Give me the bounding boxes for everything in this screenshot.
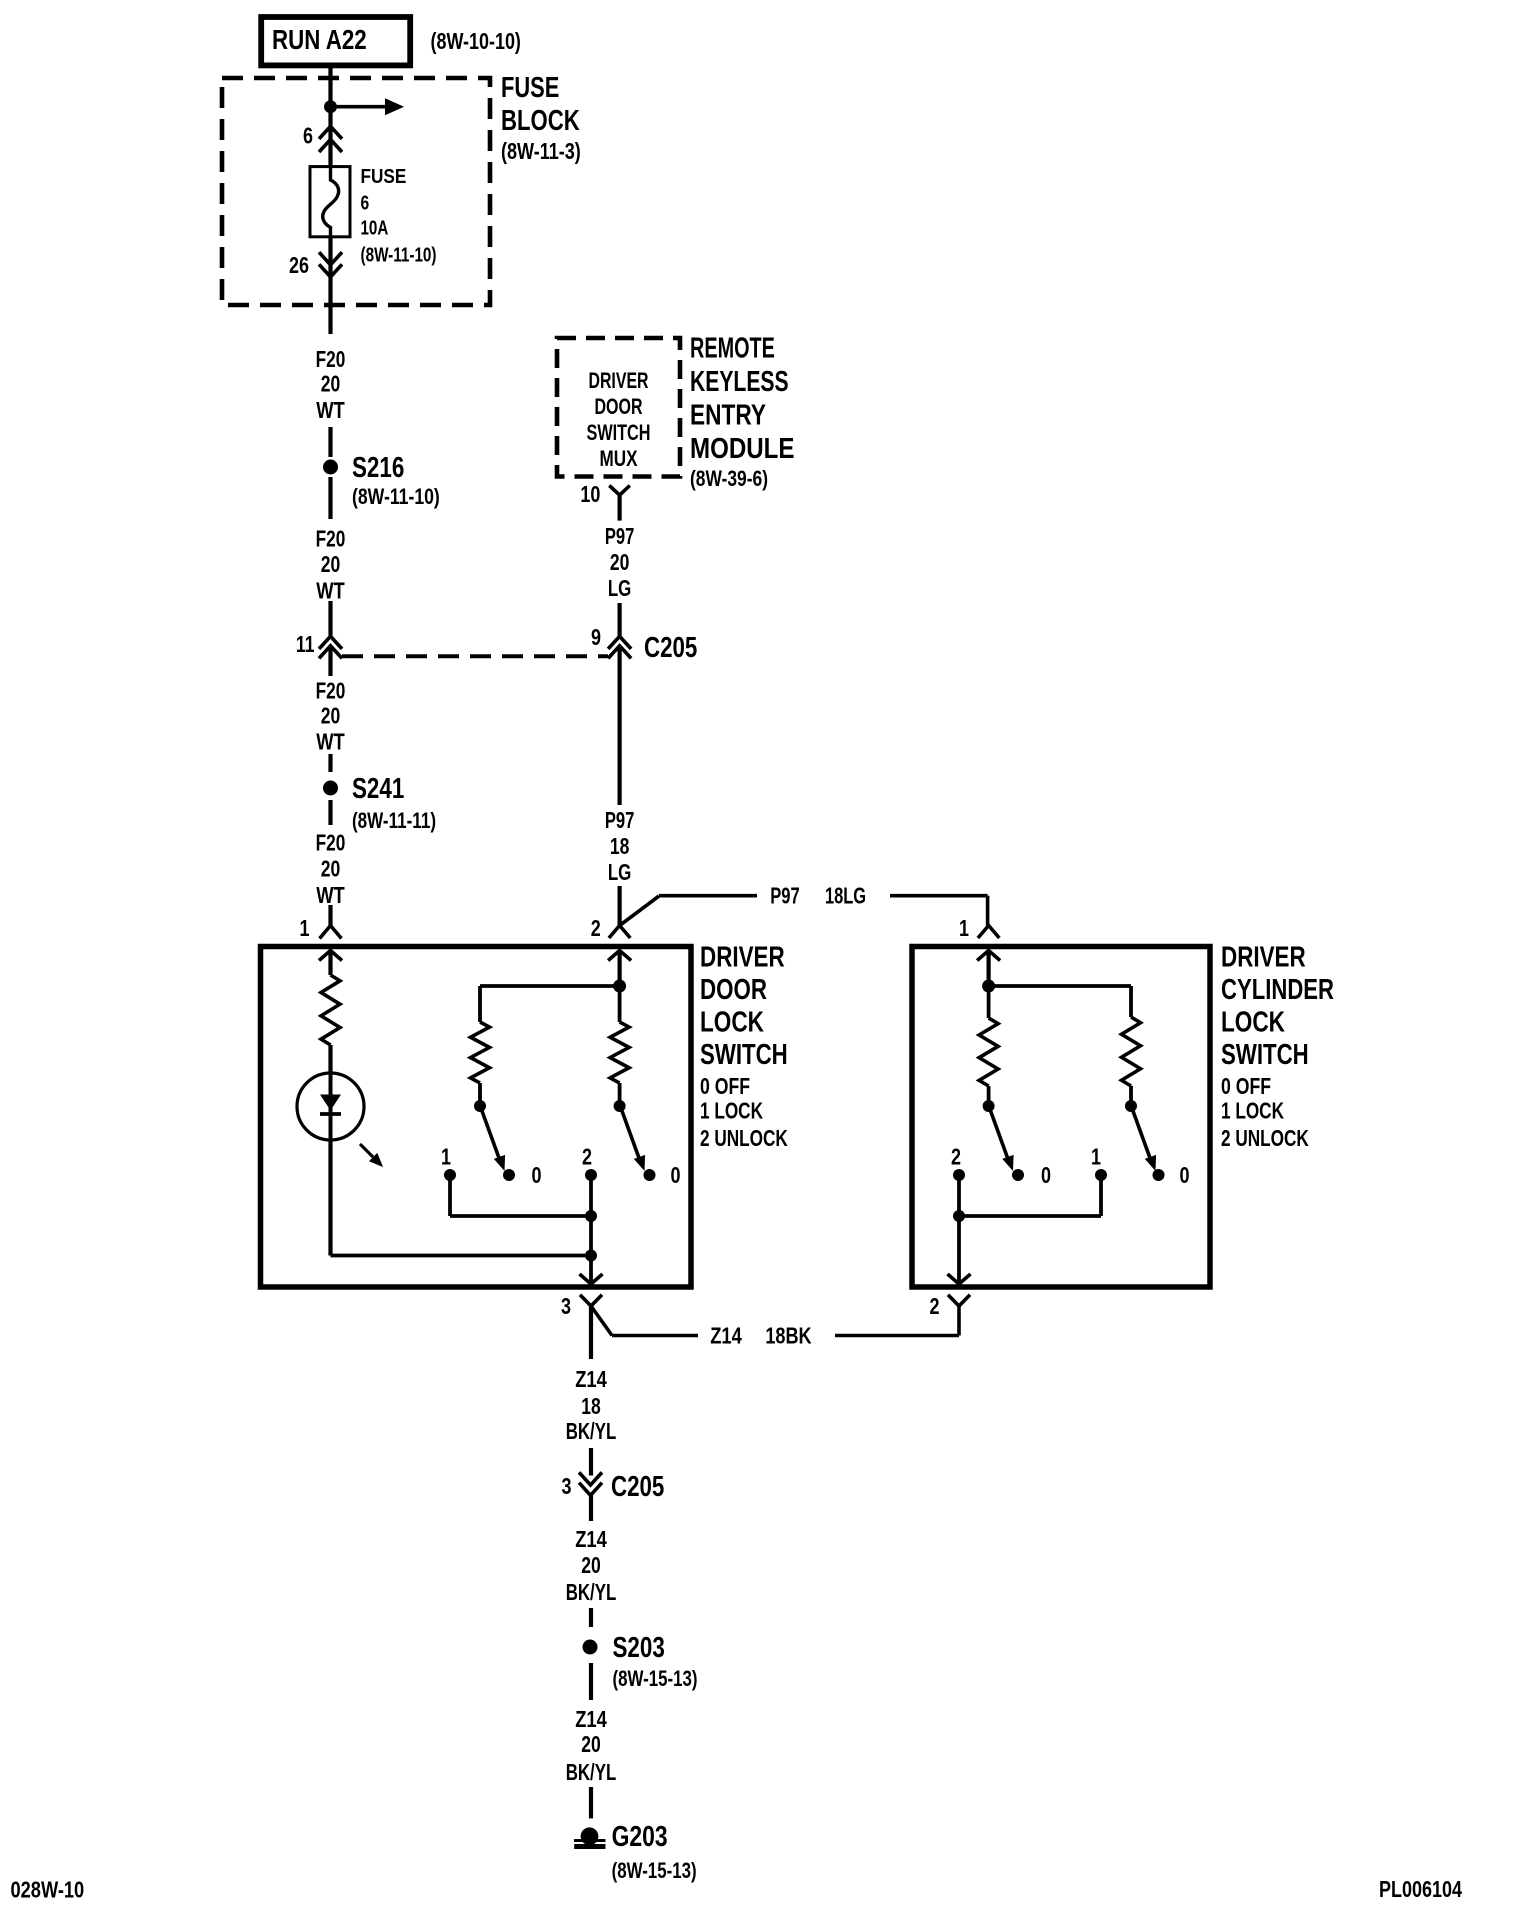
junction dot pin1 branch (cylinder) bbox=[982, 980, 995, 993]
wire contact1 down bbox=[448, 1175, 452, 1216]
resistor LED branch bbox=[321, 975, 340, 1045]
svg-text:P97: P97 bbox=[605, 523, 635, 549]
switch arm (lock) bbox=[482, 1111, 505, 1171]
svg-text:2 UNLOCK: 2 UNLOCK bbox=[700, 1125, 788, 1151]
splice S203 bbox=[583, 1640, 598, 1655]
switch arm (lock cyl) bbox=[991, 1111, 1014, 1171]
svg-text:SWITCH: SWITCH bbox=[587, 420, 651, 445]
contact 0 dot (lock cyl) bbox=[1012, 1169, 1024, 1181]
junction dot pin2 branch bbox=[613, 980, 626, 993]
svg-text:2: 2 bbox=[582, 1144, 592, 1170]
svg-text:LOCK: LOCK bbox=[700, 1007, 764, 1039]
wire segment bbox=[589, 1448, 593, 1476]
svg-text:WT: WT bbox=[316, 882, 345, 908]
svg-text:2: 2 bbox=[930, 1293, 940, 1319]
svg-text:26: 26 bbox=[289, 252, 309, 278]
wire branch horizontal bbox=[480, 984, 620, 988]
connector C205 pin 11 (double chevron) bbox=[319, 636, 342, 658]
svg-text:2 UNLOCK: 2 UNLOCK bbox=[1221, 1125, 1309, 1151]
label Z14 18BK bbox=[710, 1323, 812, 1349]
wire label P97 20 LG bbox=[605, 523, 635, 601]
wire segment bbox=[328, 477, 332, 519]
LED circle bbox=[297, 1073, 364, 1140]
svg-text:C205: C205 bbox=[611, 1471, 664, 1503]
junction dot LED join bbox=[585, 1250, 597, 1262]
wire pin2 stem to corner bbox=[957, 1306, 961, 1336]
svg-text:F20: F20 bbox=[316, 678, 346, 704]
wire branch down (unlock resistor) bbox=[618, 986, 622, 1022]
driver cylinder lock switch box bbox=[912, 947, 1210, 1288]
wire branch down (lock res cyl) bbox=[987, 986, 991, 1018]
wire to pivot (lock) bbox=[478, 1083, 482, 1101]
svg-text:ENTRY: ENTRY bbox=[690, 400, 766, 432]
svg-text:20: 20 bbox=[610, 549, 630, 575]
svg-text:BLOCK: BLOCK bbox=[501, 105, 580, 137]
svg-text:BK/YL: BK/YL bbox=[566, 1759, 617, 1785]
svg-text:C205: C205 bbox=[644, 632, 697, 664]
svg-text:0: 0 bbox=[532, 1162, 542, 1188]
svg-text:2: 2 bbox=[591, 915, 601, 941]
svg-text:KEYLESS: KEYLESS bbox=[690, 366, 789, 398]
wire contact2 down to pin3 bbox=[589, 1175, 593, 1284]
wire label F20 20 WT (1) bbox=[316, 346, 346, 423]
fuse F6 element bbox=[323, 167, 339, 237]
contact 1 dot (cylinder) bbox=[1095, 1169, 1107, 1181]
svg-text:20: 20 bbox=[321, 856, 341, 882]
svg-text:20: 20 bbox=[321, 371, 341, 397]
wire junction to fuse bbox=[328, 107, 332, 167]
svg-text:S241: S241 bbox=[352, 773, 404, 805]
svg-text:Z14: Z14 bbox=[575, 1366, 607, 1392]
svg-text:20: 20 bbox=[321, 703, 341, 729]
wire through LED bbox=[329, 1073, 333, 1140]
resistor unlock branch (cylinder) bbox=[1122, 1017, 1141, 1086]
contact 2 dot bbox=[585, 1169, 597, 1181]
svg-text:DRIVER: DRIVER bbox=[1221, 942, 1306, 974]
label S216 (8W-11-10) bbox=[352, 452, 440, 509]
connector pin 3 male half (v down) bbox=[580, 1274, 603, 1284]
wire pin1 to resistor bbox=[328, 951, 332, 976]
svg-text:(8W-11-3): (8W-11-3) bbox=[501, 138, 581, 164]
svg-text:Z14: Z14 bbox=[710, 1323, 742, 1349]
svg-text:WT: WT bbox=[316, 729, 345, 755]
wire Z14 18BK horizontal left bbox=[612, 1334, 698, 1338]
connector pin 3 female half bbox=[580, 1295, 602, 1306]
wire segment bbox=[328, 754, 332, 772]
fuse block boundary (dashed) bbox=[222, 78, 490, 305]
svg-text:(8W-15-13): (8W-15-13) bbox=[613, 1666, 698, 1691]
svg-text:1 LOCK: 1 LOCK bbox=[700, 1098, 763, 1124]
svg-text:(8W-10-10): (8W-10-10) bbox=[431, 28, 521, 54]
svg-text:(8W-11-11): (8W-11-11) bbox=[352, 808, 436, 833]
connector pin 2 male half bbox=[608, 951, 631, 961]
wire segment bbox=[328, 800, 332, 825]
svg-text:028W-10: 028W-10 bbox=[11, 1877, 85, 1903]
wire contact2 down (cylinder) bbox=[957, 1175, 961, 1284]
connector pin 2 male half (v down, cylinder) bbox=[948, 1274, 971, 1284]
svg-text:3: 3 bbox=[561, 1293, 571, 1319]
node RUN A22 (feed box) bbox=[261, 17, 410, 65]
wire pin 10 stem bbox=[617, 495, 621, 520]
switch pivot dot (lock cyl) bbox=[983, 1100, 995, 1112]
svg-text:6: 6 bbox=[303, 122, 313, 148]
wire pin3 stem bbox=[589, 1306, 593, 1359]
svg-text:CYLINDER: CYLINDER bbox=[1221, 974, 1334, 1006]
wire LED branch horizontal bbox=[331, 1254, 592, 1258]
svg-text:9: 9 bbox=[591, 624, 601, 650]
svg-text:1: 1 bbox=[300, 915, 310, 941]
connector pin 6 (double chevron) bbox=[319, 126, 342, 152]
svg-text:(8W-11-10): (8W-11-10) bbox=[361, 245, 437, 267]
svg-text:REMOTE: REMOTE bbox=[690, 333, 775, 365]
wire segment bbox=[589, 1663, 593, 1700]
svg-text:BK/YL: BK/YL bbox=[566, 1418, 617, 1444]
junction dot common (cylinder) bbox=[953, 1210, 965, 1222]
wire label F20 20 WT (4) bbox=[316, 830, 346, 909]
svg-text:1: 1 bbox=[959, 915, 969, 941]
wire Z14 18BK horizontal right bbox=[835, 1334, 959, 1338]
svg-text:LG: LG bbox=[608, 859, 632, 885]
wire segment bbox=[617, 603, 621, 636]
wire segment bbox=[617, 647, 621, 805]
driver door switch mux box (dashed) bbox=[557, 338, 680, 477]
wire branch down (lock resistor) bbox=[478, 986, 482, 1022]
svg-text:DOOR: DOOR bbox=[595, 394, 643, 419]
svg-text:1: 1 bbox=[441, 1144, 451, 1170]
wire label F20 20 WT (3) bbox=[316, 678, 346, 755]
svg-text:Z14: Z14 bbox=[575, 1706, 607, 1732]
wire to pivot (unlock) bbox=[618, 1083, 622, 1101]
svg-text:(8W-11-10): (8W-11-10) bbox=[352, 484, 440, 509]
wire common horizontal (cylinder) bbox=[959, 1214, 1101, 1218]
svg-text:LOCK: LOCK bbox=[1221, 1007, 1285, 1039]
wire fuse to F20 label bbox=[328, 237, 332, 334]
wire arrow to other circuits bbox=[336, 98, 404, 115]
svg-text:DRIVER: DRIVER bbox=[589, 368, 649, 393]
wire pin1 down (cylinder) bbox=[986, 951, 990, 987]
svg-text:SWITCH: SWITCH bbox=[700, 1039, 788, 1071]
LED emission arrow bbox=[360, 1144, 383, 1167]
connector pin 2 female half (cylinder bottom) bbox=[948, 1295, 970, 1306]
label switch positions (cylinder) bbox=[1221, 1073, 1309, 1151]
wire segment bbox=[328, 905, 332, 926]
svg-text:0 OFF: 0 OFF bbox=[1221, 1073, 1271, 1099]
svg-text:18LG: 18LG bbox=[825, 883, 866, 909]
contact 2 dot (cylinder) bbox=[953, 1169, 965, 1181]
wire RUN A22 to junction bbox=[328, 68, 332, 107]
driver door lock switch box bbox=[261, 947, 692, 1288]
svg-text:(8W-15-13): (8W-15-13) bbox=[612, 1858, 697, 1883]
ground G203 bbox=[574, 1827, 606, 1846]
wire P97 18LG horizontal left bbox=[659, 894, 757, 898]
wire label F20 20 WT (2) bbox=[316, 526, 346, 604]
connector pin 10 female half bbox=[609, 486, 630, 496]
svg-text:1: 1 bbox=[1091, 1144, 1101, 1170]
resistor unlock branch bbox=[610, 1022, 629, 1083]
svg-text:0 OFF: 0 OFF bbox=[700, 1073, 750, 1099]
connector pin 2 female half bbox=[609, 926, 630, 939]
wire pin2 down bbox=[617, 951, 621, 987]
svg-text:DOOR: DOOR bbox=[700, 974, 767, 1006]
wire label Z14 18 BK/YL bbox=[566, 1366, 617, 1444]
svg-text:S216: S216 bbox=[352, 452, 404, 484]
contact 1 dot bbox=[444, 1169, 456, 1181]
wire segment bbox=[589, 1787, 593, 1818]
connector C205 dashed line bbox=[342, 654, 608, 658]
svg-text:18: 18 bbox=[581, 1393, 601, 1419]
wire LED to bottom corner bbox=[328, 1140, 332, 1256]
svg-text:20: 20 bbox=[581, 1552, 601, 1578]
junction dot bbox=[324, 100, 337, 113]
wire contact1 up (cylinder) bbox=[1099, 1175, 1103, 1216]
wire P97 18LG horizontal right bbox=[890, 894, 988, 898]
svg-text:FUSE: FUSE bbox=[501, 72, 559, 104]
svg-text:2: 2 bbox=[951, 1144, 961, 1170]
wire to pivot (lock cyl) bbox=[987, 1086, 991, 1101]
svg-text:BK/YL: BK/YL bbox=[566, 1579, 617, 1605]
svg-text:11: 11 bbox=[296, 631, 315, 657]
switch pivot dot (unlock) bbox=[614, 1100, 626, 1112]
svg-text:20: 20 bbox=[321, 551, 341, 577]
svg-text:FUSE: FUSE bbox=[361, 166, 407, 188]
LED diode triangle bbox=[320, 1095, 341, 1111]
svg-text:RUN A22: RUN A22 bbox=[272, 24, 367, 55]
wire corner down to cylinder switch bbox=[986, 896, 990, 926]
wire resistor to LED bbox=[328, 1045, 332, 1073]
wire segment bbox=[617, 886, 621, 926]
connector C205 pin 9 (double chevron) bbox=[608, 636, 631, 658]
wire segment bbox=[589, 1608, 593, 1627]
svg-text:MUX: MUX bbox=[600, 446, 638, 471]
svg-text:10A: 10A bbox=[361, 218, 389, 240]
svg-text:MODULE: MODULE bbox=[690, 433, 795, 465]
connector C205 pin 3 (double chevron down) bbox=[579, 1472, 602, 1495]
svg-text:S203: S203 bbox=[613, 1632, 665, 1664]
wire branch horizontal (cylinder) bbox=[989, 984, 1131, 988]
switch pivot dot (unlock cyl) bbox=[1125, 1100, 1137, 1112]
wire branch down (unlock res cyl) bbox=[1129, 986, 1133, 1017]
svg-text:F20: F20 bbox=[316, 830, 346, 856]
label S241 (8W-11-11) bbox=[352, 773, 436, 833]
label switch positions bbox=[700, 1073, 788, 1151]
svg-text:10: 10 bbox=[580, 481, 600, 507]
svg-text:P97: P97 bbox=[770, 883, 800, 909]
svg-text:3: 3 bbox=[562, 1473, 572, 1499]
svg-text:G203: G203 bbox=[612, 1821, 668, 1853]
resistor lock branch (cylinder) bbox=[979, 1018, 998, 1086]
svg-text:0: 0 bbox=[1041, 1162, 1051, 1188]
svg-text:6: 6 bbox=[361, 193, 370, 215]
svg-text:LG: LG bbox=[608, 575, 632, 601]
svg-text:SWITCH: SWITCH bbox=[1221, 1039, 1309, 1071]
wire segment bbox=[328, 601, 332, 636]
label S203 (8W-15-13) bbox=[613, 1632, 698, 1691]
label FUSE 6 10A (8W-11-10) bbox=[361, 166, 437, 267]
junction dot common bbox=[585, 1210, 597, 1222]
contact 0 dot (unlock cyl) bbox=[1153, 1169, 1165, 1181]
wire takeoff diagonal P97 bbox=[620, 896, 659, 926]
connector pin 1 female half (cylinder) bbox=[978, 926, 999, 939]
wire segment bbox=[589, 1496, 593, 1522]
svg-text:(8W-39-6): (8W-39-6) bbox=[690, 466, 768, 491]
svg-text:0: 0 bbox=[671, 1162, 681, 1188]
fuse F6 body bbox=[310, 167, 350, 237]
svg-text:WT: WT bbox=[316, 397, 345, 423]
svg-text:P97: P97 bbox=[605, 807, 635, 833]
wire label Z14 20 BK/YL (2) bbox=[566, 1706, 617, 1785]
label FUSE BLOCK bbox=[501, 72, 581, 164]
svg-text:F20: F20 bbox=[316, 526, 346, 552]
connector pin 26 (double chevron down) bbox=[319, 252, 342, 277]
wire to pivot (unlock cyl) bbox=[1129, 1086, 1133, 1101]
label REMOTE KEYLESS ENTRY MODULE bbox=[690, 333, 795, 492]
LED cathode bar bbox=[320, 1112, 341, 1116]
contact 0 dot (unlock) bbox=[644, 1169, 656, 1181]
switch arm (unlock cyl) bbox=[1133, 1111, 1156, 1171]
svg-text:Z14: Z14 bbox=[575, 1526, 607, 1552]
label G203 (8W-15-13) bbox=[612, 1821, 697, 1883]
label DRIVER DOOR LOCK SWITCH bbox=[700, 942, 788, 1072]
svg-text:18: 18 bbox=[610, 833, 630, 859]
wire label Z14 20 BK/YL (1) bbox=[566, 1526, 617, 1605]
contact 0 dot (lock) bbox=[503, 1169, 515, 1181]
connector pin 1 male half bbox=[319, 951, 342, 961]
svg-text:18BK: 18BK bbox=[765, 1323, 812, 1349]
svg-text:20: 20 bbox=[581, 1731, 601, 1757]
connector pin 1 male half (cylinder) bbox=[977, 951, 1000, 961]
label DRIVER DOOR SWITCH MUX bbox=[587, 368, 651, 471]
wire contact1 horizontal bbox=[450, 1214, 591, 1218]
switch pivot dot (lock) bbox=[474, 1100, 486, 1112]
wire segment bbox=[328, 647, 332, 676]
label DRIVER CYLINDER LOCK SWITCH bbox=[1221, 942, 1334, 1072]
svg-text:0: 0 bbox=[1180, 1162, 1190, 1188]
wire label P97 18 LG bbox=[605, 807, 635, 885]
wire takeoff diagonal Z14 bbox=[591, 1306, 612, 1336]
svg-text:WT: WT bbox=[316, 578, 345, 604]
splice S216 bbox=[323, 460, 338, 475]
splice S241 bbox=[323, 781, 338, 796]
svg-text:1 LOCK: 1 LOCK bbox=[1221, 1098, 1284, 1124]
resistor lock branch bbox=[471, 1022, 490, 1083]
svg-text:DRIVER: DRIVER bbox=[700, 942, 785, 974]
svg-text:PL006104: PL006104 bbox=[1379, 1876, 1462, 1902]
label P97 18LG bbox=[770, 883, 866, 909]
svg-text:F20: F20 bbox=[316, 346, 346, 372]
switch arm (unlock) bbox=[622, 1111, 645, 1171]
wire segment bbox=[328, 427, 332, 457]
connector pin 1 female half bbox=[320, 926, 342, 939]
